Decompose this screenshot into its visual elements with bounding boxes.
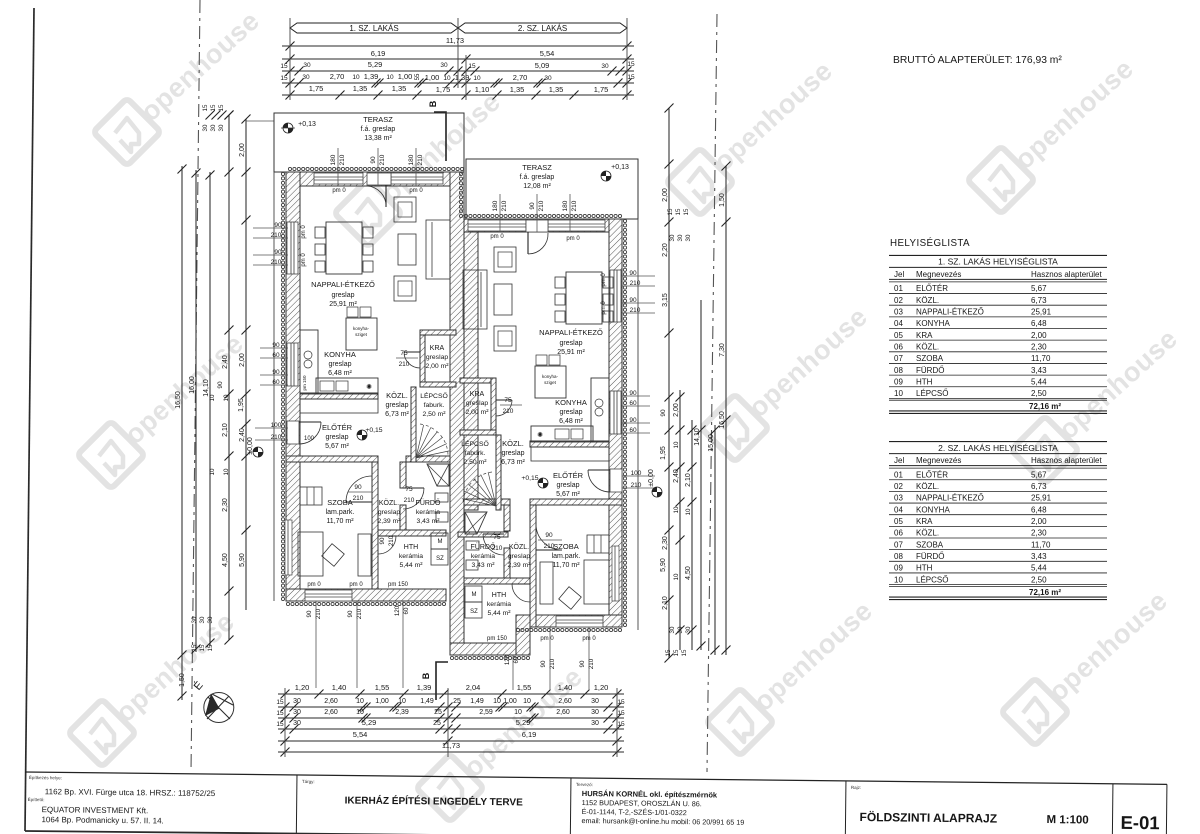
svg-text:02: 02 xyxy=(894,482,903,491)
svg-text:4,50: 4,50 xyxy=(685,566,692,580)
AP2 top wall window left xyxy=(468,220,526,231)
AP1 washbasin xyxy=(435,493,448,502)
svg-text:6,19: 6,19 xyxy=(371,49,386,58)
svg-text:NAPPALI-ÉTKEZŐ: NAPPALI-ÉTKEZŐ xyxy=(311,280,375,289)
left page border line xyxy=(25,8,34,831)
svg-text:KRA: KRA xyxy=(430,345,445,352)
AP1 M box xyxy=(431,533,448,549)
AP2 wall kozl/hth xyxy=(464,578,530,584)
svg-text:B: B xyxy=(421,672,431,679)
insulation dots AP1 top xyxy=(288,167,291,170)
AP2 top wall xyxy=(464,219,622,232)
svg-text:1,00: 1,00 xyxy=(503,698,517,705)
svg-text:10: 10 xyxy=(673,506,680,513)
svg-text:1,20: 1,20 xyxy=(295,683,310,692)
svg-text:15: 15 xyxy=(280,63,288,70)
svg-text:3,43: 3,43 xyxy=(1031,366,1047,375)
svg-text:30: 30 xyxy=(293,720,301,727)
AP1 kitchen counter xyxy=(316,378,378,394)
svg-text:210: 210 xyxy=(630,280,641,287)
AP2 wall stairs/kozl vertical xyxy=(496,435,501,510)
svg-text:10: 10 xyxy=(398,698,406,705)
AP1 entry door leaf+arc xyxy=(299,421,321,423)
svg-text:10: 10 xyxy=(894,575,903,584)
AP2 bottom wall szoba part xyxy=(516,615,622,627)
AP2 top wall window right xyxy=(548,220,605,231)
svg-text:2,30: 2,30 xyxy=(1031,529,1047,538)
svg-text:90: 90 xyxy=(529,202,536,210)
left property dash-dot line xyxy=(191,0,200,772)
svg-text:72,16 m²: 72,16 m² xyxy=(1029,588,1061,597)
bottom page border line xyxy=(25,831,1170,834)
svg-text:2,00 m²: 2,00 m² xyxy=(425,363,449,370)
svg-text:konyha-: konyha- xyxy=(542,374,559,379)
AP1 wall szoba/furdo top right part xyxy=(406,456,450,462)
bottom chain row meters xyxy=(278,693,624,695)
svg-text:pm 0: pm 0 xyxy=(601,273,607,287)
AP1 wall kozl/furdo vertical xyxy=(400,462,406,488)
svg-text:2. SZ. LAKÁS: 2. SZ. LAKÁS xyxy=(518,24,567,33)
svg-text:greslap: greslap xyxy=(502,450,525,457)
AP2 corridor wall vertical xyxy=(530,505,536,627)
svg-text:03: 03 xyxy=(894,494,903,503)
svg-text:+0,13: +0,13 xyxy=(298,121,316,128)
svg-text:5,29: 5,29 xyxy=(362,718,377,727)
AP1 bed right xyxy=(358,534,371,576)
AP2 armchair top xyxy=(494,247,516,272)
AP2 hth door xyxy=(512,583,530,585)
svg-text:Megnevezés: Megnevezés xyxy=(916,270,961,279)
svg-text:2,60: 2,60 xyxy=(556,709,570,716)
AP2 M box xyxy=(465,586,482,602)
svg-text:2,00 m²: 2,00 m² xyxy=(465,409,489,416)
svg-text:1,00: 1,00 xyxy=(398,72,413,81)
insulation dots AP2 top xyxy=(464,214,467,217)
svg-text:NAPPALI-ÉTKEZŐ: NAPPALI-ÉTKEZŐ xyxy=(916,308,984,317)
svg-text:11,70: 11,70 xyxy=(1031,354,1051,363)
AP1 wall kozl/hth xyxy=(378,530,446,536)
AP1 top wall window left xyxy=(314,173,363,184)
svg-text:±0,00: ±0,00 xyxy=(648,469,655,487)
svg-text:Építtető:: Építtető: xyxy=(28,796,45,802)
left vertical dimension chains xyxy=(181,166,183,658)
svg-text:90: 90 xyxy=(272,342,280,349)
svg-text:15: 15 xyxy=(276,710,284,717)
svg-text:pm 0: pm 0 xyxy=(301,253,307,267)
svg-text:2,50: 2,50 xyxy=(1031,575,1047,584)
bottom chain row small dims 2 xyxy=(278,717,624,719)
svg-text:4,50: 4,50 xyxy=(222,553,229,567)
svg-text:TERASZ: TERASZ xyxy=(522,163,552,172)
svg-text:15: 15 xyxy=(627,74,635,81)
svg-text:6,73 m²: 6,73 m² xyxy=(385,411,409,418)
svg-text:15: 15 xyxy=(191,644,198,651)
svg-text:HTH: HTH xyxy=(916,377,933,386)
svg-text:25: 25 xyxy=(433,720,441,727)
svg-text:210: 210 xyxy=(501,200,508,211)
svg-text:30: 30 xyxy=(685,234,692,241)
svg-text:5,67: 5,67 xyxy=(1031,284,1047,293)
svg-text:100: 100 xyxy=(631,470,642,477)
svg-text:90: 90 xyxy=(347,610,354,617)
svg-text:15: 15 xyxy=(617,699,625,706)
svg-text:04: 04 xyxy=(894,505,903,514)
AP2 right wall window szoba xyxy=(612,546,619,601)
insulation dots AP2 bottom xyxy=(516,628,519,631)
AP2 kitchen counter xyxy=(531,426,593,442)
svg-text:16,00: 16,00 xyxy=(189,376,196,394)
svg-text:08: 08 xyxy=(894,366,903,375)
svg-text:2,20: 2,20 xyxy=(662,243,669,257)
svg-text:greslap: greslap xyxy=(332,292,355,299)
svg-text:15,00: 15,00 xyxy=(708,434,715,452)
svg-text:30: 30 xyxy=(669,234,676,241)
svg-text:11,73: 11,73 xyxy=(446,36,464,45)
svg-text:konyha-: konyha- xyxy=(353,326,370,331)
svg-text:greslap: greslap xyxy=(386,402,409,409)
svg-text:2,30: 2,30 xyxy=(1031,342,1047,351)
AP1 top wall xyxy=(288,172,464,186)
svg-text:01: 01 xyxy=(894,470,903,479)
AP1 kra door xyxy=(404,351,420,353)
svg-text:15: 15 xyxy=(617,710,625,717)
svg-text:SZOBA: SZOBA xyxy=(553,542,578,551)
svg-text:15: 15 xyxy=(673,649,680,656)
svg-text:30: 30 xyxy=(677,234,684,241)
svg-text:1,95: 1,95 xyxy=(660,446,667,460)
svg-text:6,73: 6,73 xyxy=(1031,296,1047,305)
svg-text:M: M xyxy=(472,592,477,598)
AP1 left wall window (konyha) xyxy=(287,343,298,386)
north arrow xyxy=(204,693,234,723)
svg-text:11,70: 11,70 xyxy=(1031,540,1051,549)
party wall xyxy=(450,172,464,655)
svg-text:12,08 m²: 12,08 m² xyxy=(523,183,551,190)
svg-text:KONYHA: KONYHA xyxy=(324,350,356,359)
svg-text:05: 05 xyxy=(894,517,903,526)
svg-text:5,54: 5,54 xyxy=(540,49,555,58)
svg-text:25: 25 xyxy=(434,709,442,716)
svg-text:180: 180 xyxy=(408,154,415,165)
svg-text:15: 15 xyxy=(675,208,682,215)
svg-text:pm 0: pm 0 xyxy=(540,636,554,642)
svg-text:HTH: HTH xyxy=(404,544,418,551)
svg-text:ELŐTÉR: ELŐTÉR xyxy=(916,284,948,293)
svg-text:15: 15 xyxy=(280,75,288,82)
AP1 bottom wall xyxy=(286,589,446,601)
AP2 wall furdo/hth top xyxy=(458,532,508,537)
svg-text:kerámia: kerámia xyxy=(416,509,440,516)
svg-text:15: 15 xyxy=(218,104,225,111)
label box 1. SZ. LAKAS xyxy=(290,23,458,33)
svg-text:2,40: 2,40 xyxy=(673,469,680,483)
AP1 entry door dims xyxy=(255,427,288,429)
svg-text:5,67: 5,67 xyxy=(1031,470,1047,479)
svg-text:10: 10 xyxy=(523,698,531,705)
AP2 furdo door xyxy=(483,533,504,535)
AP2 winder stairs xyxy=(462,471,496,506)
svg-text:2,70: 2,70 xyxy=(513,73,528,82)
svg-text:1,49: 1,49 xyxy=(420,698,434,705)
svg-text:60: 60 xyxy=(403,607,410,614)
svg-text:2,60: 2,60 xyxy=(324,709,338,716)
svg-text:pm 0: pm 0 xyxy=(301,225,307,239)
svg-text:120: 120 xyxy=(504,654,511,665)
svg-text:2,70: 2,70 xyxy=(330,72,345,81)
svg-text:30: 30 xyxy=(207,616,214,623)
svg-text:Jel: Jel xyxy=(894,456,904,465)
svg-text:90: 90 xyxy=(545,532,553,539)
svg-text:LÉPCSŐ: LÉPCSŐ xyxy=(916,575,948,584)
svg-text:06: 06 xyxy=(894,529,903,538)
svg-text:greslap: greslap xyxy=(466,400,489,407)
AP2 kitchen island xyxy=(535,366,566,398)
svg-text:2,40: 2,40 xyxy=(239,428,246,442)
AP1 entry door opening xyxy=(287,421,299,444)
svg-text:6,48: 6,48 xyxy=(1031,505,1047,514)
svg-text:30: 30 xyxy=(591,698,599,705)
svg-text:pm 0: pm 0 xyxy=(409,188,423,194)
svg-text:16,50: 16,50 xyxy=(719,411,726,429)
svg-text:1,39: 1,39 xyxy=(417,683,432,692)
svg-text:10: 10 xyxy=(352,74,360,81)
svg-text:180: 180 xyxy=(330,154,337,165)
svg-text:5,44: 5,44 xyxy=(1031,564,1047,573)
svg-text:KÖZL.: KÖZL. xyxy=(386,391,408,400)
exterior face line right xyxy=(637,219,639,630)
AP2 shower xyxy=(465,512,487,534)
AP2 wardrobe szoba xyxy=(587,535,609,553)
insulation dots party wall upper (terrace2 side) xyxy=(459,172,462,175)
right property dash-dot line xyxy=(707,14,717,772)
svg-text:B: B xyxy=(428,100,438,107)
svg-text:KONYHA: KONYHA xyxy=(555,398,587,407)
AP2 washbasin xyxy=(466,541,479,550)
AP2 right wall window (nappali) xyxy=(610,270,621,322)
AP1 bed left xyxy=(298,532,323,576)
svg-text:90: 90 xyxy=(274,249,282,256)
svg-text:+0,15: +0,15 xyxy=(521,475,538,482)
svg-text:10: 10 xyxy=(685,508,692,515)
svg-text:1,55: 1,55 xyxy=(517,683,532,692)
svg-text:10: 10 xyxy=(386,74,394,81)
AP1 wc xyxy=(436,512,448,522)
svg-text:SZOBA: SZOBA xyxy=(916,540,944,549)
svg-text:60: 60 xyxy=(629,400,637,407)
svg-text:1,35: 1,35 xyxy=(549,85,564,94)
svg-text:Tervező:: Tervező: xyxy=(576,782,593,787)
svg-text:75: 75 xyxy=(400,350,408,357)
table 2. SZ. LAK&#193;S HELYIS&#201;GLISTA xyxy=(889,441,1107,443)
svg-text:60: 60 xyxy=(513,656,520,663)
svg-text:90: 90 xyxy=(274,222,282,229)
svg-text:6,48 m²: 6,48 m² xyxy=(559,418,583,425)
svg-text:210: 210 xyxy=(631,482,642,489)
title block xyxy=(24,772,1167,834)
svg-text:6,19: 6,19 xyxy=(522,730,537,739)
svg-text:lam.park.: lam.park. xyxy=(326,509,355,516)
svg-text:210: 210 xyxy=(339,154,346,165)
svg-text:03: 03 xyxy=(894,308,903,317)
AP1 coffee table xyxy=(398,234,416,265)
svg-text:210: 210 xyxy=(571,200,578,211)
svg-text:210: 210 xyxy=(399,361,410,368)
svg-text:5,90: 5,90 xyxy=(660,558,667,572)
AP2 szoba door xyxy=(536,549,562,551)
svg-text:BRUTTÓ ALAPTERÜLET: 176,93 m²: BRUTTÓ ALAPTERÜLET: 176,93 m² xyxy=(893,53,1062,66)
AP1 left wall window (nappali) xyxy=(287,222,298,274)
svg-text:1064 Bp. Podmanicky u. 57. II.: 1064 Bp. Podmanicky u. 57. II. 14. xyxy=(41,815,163,825)
svg-text:ELŐTÉR: ELŐTÉR xyxy=(553,471,584,480)
svg-text:KRA: KRA xyxy=(470,391,485,398)
terrace2 opening dims xyxy=(499,194,501,232)
svg-text:KÖZL.: KÖZL. xyxy=(502,439,524,448)
svg-text:1,39: 1,39 xyxy=(455,73,470,82)
svg-text:KÖZL.: KÖZL. xyxy=(916,482,939,491)
svg-text:2,39 m²: 2,39 m² xyxy=(377,518,401,525)
svg-text:faburk.: faburk. xyxy=(465,450,486,457)
top chain row 11,73 xyxy=(282,45,634,47)
svg-text:pm 0: pm 0 xyxy=(566,236,580,242)
svg-text:Tárgy:: Tárgy: xyxy=(302,779,315,784)
svg-text:2,00: 2,00 xyxy=(673,403,680,417)
AP1 shower xyxy=(427,464,449,486)
svg-text:06: 06 xyxy=(894,342,903,351)
AP2 bed left xyxy=(540,562,553,604)
AP1 konyha window dims xyxy=(260,347,288,349)
svg-text:greslap: greslap xyxy=(378,509,401,516)
svg-text:1,00: 1,00 xyxy=(425,73,440,82)
svg-text:210: 210 xyxy=(353,495,364,502)
AP2 kitchen right cabinet xyxy=(591,378,609,442)
svg-text:2,59: 2,59 xyxy=(479,709,493,716)
AP1 bottom window szoba xyxy=(305,590,352,601)
svg-text:Építkezés helye:: Építkezés helye: xyxy=(29,774,62,780)
svg-text:SZ: SZ xyxy=(470,609,478,615)
svg-text:2,00: 2,00 xyxy=(662,188,669,202)
AP2 cabinet row south of kitchen wall xyxy=(531,447,609,461)
svg-text:5,09: 5,09 xyxy=(535,61,550,70)
svg-text:EQUATOR INVESTMENT Kft.: EQUATOR INVESTMENT Kft. xyxy=(42,805,149,815)
svg-text:5,67 m²: 5,67 m² xyxy=(556,491,580,498)
svg-text:10: 10 xyxy=(223,394,230,401)
svg-text:5,44: 5,44 xyxy=(1031,377,1047,386)
svg-text:6,48 m²: 6,48 m² xyxy=(328,370,352,377)
svg-text:1. SZ. LAKÁS: 1. SZ. LAKÁS xyxy=(349,24,398,33)
svg-text:Rajz:: Rajz: xyxy=(851,785,861,790)
svg-text:LÉPCSŐ: LÉPCSŐ xyxy=(420,391,448,400)
AP2 bottom wall hth part xyxy=(450,643,530,655)
svg-text:30: 30 xyxy=(303,62,311,69)
svg-text:75: 75 xyxy=(493,534,501,541)
svg-text:13,38 m²: 13,38 m² xyxy=(364,135,392,142)
svg-text:KONYHA: KONYHA xyxy=(916,505,950,514)
svg-text:75: 75 xyxy=(405,486,413,493)
AP1 KRA room walls xyxy=(420,330,456,335)
AP2 wc xyxy=(466,560,478,570)
svg-text:15: 15 xyxy=(468,63,476,70)
exterior face line left xyxy=(273,172,275,601)
svg-text:1,39: 1,39 xyxy=(364,72,379,81)
svg-text:30: 30 xyxy=(601,63,609,70)
svg-text:2,50 m²: 2,50 m² xyxy=(463,459,487,466)
svg-text:30: 30 xyxy=(199,616,206,623)
svg-text:15: 15 xyxy=(210,104,217,111)
svg-text:10: 10 xyxy=(356,698,364,705)
svg-text:NAPPALI-ÉTKEZŐ: NAPPALI-ÉTKEZŐ xyxy=(916,494,984,503)
svg-text:09: 09 xyxy=(894,564,903,573)
svg-text:2,10: 2,10 xyxy=(662,596,669,610)
svg-text:30: 30 xyxy=(293,698,301,705)
svg-text:greslap: greslap xyxy=(329,361,352,368)
AP2 right wall window dims xyxy=(622,275,655,277)
svg-text:30: 30 xyxy=(591,709,599,716)
AP2 wall szoba/furdo top left part xyxy=(464,499,510,505)
svg-text:3,43 m²: 3,43 m² xyxy=(471,562,495,569)
terrace1 opening dims xyxy=(337,148,339,186)
svg-text:KÖZL.: KÖZL. xyxy=(379,499,399,507)
svg-text:09: 09 xyxy=(894,377,903,386)
svg-text:210: 210 xyxy=(630,307,641,314)
AP2 right wall window (konyha) xyxy=(610,391,621,434)
svg-text:greslap: greslap xyxy=(508,553,531,560)
AP2 bottom window szoba xyxy=(556,616,603,627)
AP2 KRA room walls xyxy=(460,378,496,383)
svg-text:210: 210 xyxy=(417,154,424,165)
svg-text:3,15: 3,15 xyxy=(662,293,669,307)
svg-text:FÜRDŐ: FÜRDŐ xyxy=(416,498,441,507)
AP2 armchair bottom xyxy=(494,326,516,351)
svg-text:90: 90 xyxy=(370,156,377,164)
svg-text:210: 210 xyxy=(271,259,282,266)
svg-text:greslap: greslap xyxy=(560,340,583,347)
top chain row 6,19 / 5,54 xyxy=(282,58,634,60)
svg-text:210: 210 xyxy=(503,408,514,415)
svg-text:210: 210 xyxy=(538,200,545,211)
svg-text:pm 0: pm 0 xyxy=(601,301,607,315)
svg-text:60: 60 xyxy=(272,379,280,386)
svg-text:25,91: 25,91 xyxy=(1031,308,1052,317)
AP2 konyha window dims xyxy=(622,395,650,397)
svg-text:1,50: 1,50 xyxy=(719,193,726,207)
svg-text:210: 210 xyxy=(388,535,395,546)
AP1 kitchen left cabinet xyxy=(300,330,318,394)
svg-text:90: 90 xyxy=(217,381,224,389)
AP1 wardrobe szoba xyxy=(300,487,322,505)
svg-text:120: 120 xyxy=(394,605,401,616)
AP2 coffee table xyxy=(494,284,512,315)
svg-text:2. SZ. LAKÁS HELYISÉGLISTA: 2. SZ. LAKÁS HELYISÉGLISTA xyxy=(938,443,1058,453)
top chain row small dims xyxy=(282,82,634,84)
AP1 armchair bottom xyxy=(394,276,416,301)
right vertical dimension chains xyxy=(668,108,670,658)
AP1 hth door xyxy=(378,535,396,537)
svg-text:M 1:100: M 1:100 xyxy=(1046,814,1088,826)
svg-text:04: 04 xyxy=(894,319,903,328)
svg-text:90: 90 xyxy=(540,660,547,667)
svg-text:FÖLDSZINTI ALAPRAJZ: FÖLDSZINTI ALAPRAJZ xyxy=(859,809,997,825)
svg-text:15: 15 xyxy=(207,644,214,651)
AP2 wall kozl/furdo vertical xyxy=(504,505,510,531)
svg-text:SZ: SZ xyxy=(436,556,444,562)
svg-text:KRA: KRA xyxy=(916,331,933,340)
svg-text:15: 15 xyxy=(276,699,284,706)
AP1 rotated square deco xyxy=(322,544,345,567)
AP1 szoba door xyxy=(346,501,372,503)
svg-text:100: 100 xyxy=(271,422,282,429)
AP1 dining table xyxy=(326,222,362,274)
svg-text:5,29: 5,29 xyxy=(368,60,383,69)
